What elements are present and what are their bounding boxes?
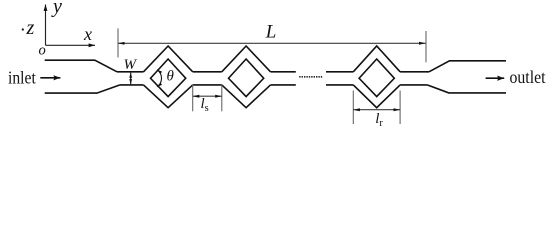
narrow channel inlet segment top wall: [117, 71, 144, 73]
outlet wide channel top wall: [429, 61, 506, 72]
svg-text:θ: θ: [167, 69, 175, 85]
svg-text:o: o: [39, 43, 46, 59]
channel segment after chamber 2 top wall: [271, 71, 296, 73]
svg-text:y: y: [51, 0, 62, 18]
channel segment outlet bottom wall: [400, 84, 427, 86]
dimension L extension line left: [117, 28, 119, 57]
svg-text:ls: ls: [201, 96, 209, 114]
dimension ls arrow: [193, 95, 222, 97]
dimension lr extension line right: [399, 91, 401, 125]
narrow channel inlet segment bottom wall: [120, 84, 144, 86]
inlet wide channel top wall: [45, 60, 117, 72]
z-axis dot: [22, 28, 24, 30]
svg-text:outlet: outlet: [510, 67, 546, 87]
channel segment chamber1-chamber2 bottom wall: [193, 84, 222, 86]
chamber 2 inner diamond: [229, 59, 264, 97]
channel segment outlet top wall: [400, 71, 429, 73]
channel segment after chamber 2 bottom wall: [271, 84, 296, 86]
svg-text:inlet: inlet: [8, 68, 36, 88]
ellipsis dotted continuation: [299, 76, 322, 78]
chamber 3 outer wall bottom: [353, 85, 400, 108]
y-axis: [45, 5, 47, 46]
svg-text:lr: lr: [375, 111, 383, 129]
outlet wide channel bottom wall: [427, 85, 506, 93]
dimension lr arrow: [353, 109, 400, 111]
chamber 2 outer wall top: [222, 46, 271, 72]
outlet flow arrow: [486, 77, 505, 79]
chamber 1 outer wall top: [144, 46, 193, 72]
svg-text:W: W: [124, 57, 138, 73]
dimension W arrow: [130, 73, 132, 85]
chamber 3 outer wall top: [353, 46, 400, 72]
dimension L extension line right: [425, 31, 427, 62]
inlet flow arrow: [40, 77, 60, 79]
channel segment chamber1-chamber2 top wall: [193, 71, 222, 73]
chamber 1 inner diamond: [151, 59, 186, 97]
channel segment before chamber 3 top wall: [326, 71, 353, 73]
inlet wide channel bottom wall: [45, 85, 120, 93]
chamber 3 inner diamond: [359, 59, 394, 97]
angle arc theta: [157, 70, 161, 87]
dimension L arrow: [118, 42, 426, 44]
svg-text:L: L: [265, 21, 277, 42]
x-axis: [46, 44, 96, 46]
dimension ls extension line left: [192, 85, 194, 111]
dimension lr extension line left: [352, 91, 354, 125]
svg-text:x: x: [83, 24, 92, 44]
chamber 1 outer wall bottom: [144, 85, 193, 108]
dimension ls extension line right: [221, 85, 223, 111]
svg-text:z: z: [26, 17, 35, 39]
channel segment before chamber 3 bottom wall: [326, 84, 353, 86]
chamber 2 outer wall bottom: [222, 85, 271, 108]
